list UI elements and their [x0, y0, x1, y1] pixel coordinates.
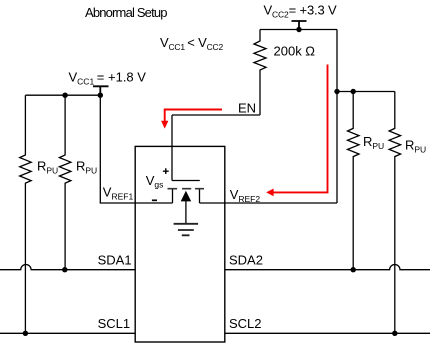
node dot SDA1: [62, 267, 67, 272]
wire SCL1: [0, 332, 135, 334]
transistor Q1 drain stub: [199, 190, 201, 204]
resistor RPU right 1: [348, 92, 360, 270]
red arrow EN gate: [161, 110, 222, 129]
wire VCC1 rail: [25, 94, 100, 96]
wire VCC2 rail: [260, 29, 337, 31]
svg-text:Abnormal Setup: Abnormal Setup: [85, 5, 168, 20]
node dot SCL1: [23, 331, 28, 336]
wire SDA1 with hop: [0, 265, 135, 270]
node dot right rail A: [334, 89, 339, 94]
wire VREF1 from VCC1: [100, 95, 172, 203]
pass transistor block box: [135, 146, 225, 342]
transistor Q1 gate bar: [172, 180, 200, 182]
wire body to ground: [185, 201, 187, 224]
transistor Q1 body arrow: [181, 191, 192, 202]
resistor RPU right 2: [389, 92, 401, 334]
wire gate from EN: [171, 115, 173, 181]
node dot VCC1 rail right: [98, 93, 103, 98]
svg-text:SCL2: SCL2: [229, 316, 262, 331]
node dot SCL2: [392, 331, 397, 336]
label plus: [163, 168, 169, 174]
node dot SDA2: [351, 267, 356, 272]
ground: [174, 224, 199, 236]
power symbol VCC2: [292, 21, 307, 30]
svg-text:SDA2: SDA2: [229, 253, 263, 268]
resistor 200k: [254, 30, 266, 116]
label minus: [152, 199, 157, 201]
node dot VCC2 rail: [296, 27, 301, 32]
wire SCL2: [225, 332, 430, 334]
svg-text:SDA1: SDA1: [98, 253, 132, 268]
svg-text:SCL1: SCL1: [98, 316, 131, 331]
red arrow VREF2: [266, 65, 327, 197]
node dot VCC1 rail left: [62, 93, 67, 98]
transistor Q1 channel dashes: [168, 188, 205, 190]
wire EN horizontal: [172, 114, 260, 116]
resistor RPU left 2: [59, 95, 71, 270]
power symbol VCC1: [93, 86, 109, 95]
resistor RPU left 1: [20, 95, 32, 333]
svg-text:EN: EN: [238, 101, 256, 116]
transistor Q1 source stub: [172, 190, 174, 204]
wire VCC2 right branch down: [336, 30, 338, 204]
wire right rail: [337, 91, 395, 93]
wire VREF2 drain to rail: [200, 202, 338, 204]
svg-text:200k Ω: 200k Ω: [274, 44, 316, 59]
node dot right rail B: [351, 89, 356, 94]
wire SDA2 with hop: [225, 265, 430, 270]
